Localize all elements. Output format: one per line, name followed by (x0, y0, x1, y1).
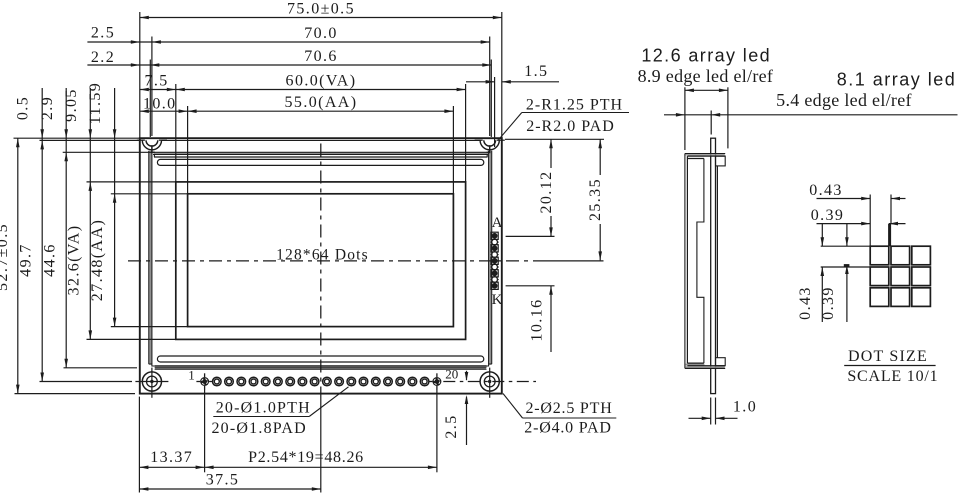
svg-text:2.2: 2.2 (91, 49, 115, 66)
side view PCB (1.0 thick) (711, 138, 716, 393)
svg-text:27.48(AA): 27.48(AA) (89, 219, 106, 301)
dimension 0.43 horizontal (817, 198, 871, 200)
VA window rectangle 60.0 x 32.6 (176, 182, 466, 340)
extension line AA top to left (111, 193, 188, 195)
extension line bezel top left (40, 139, 141, 141)
svg-text:A: A (492, 215, 503, 231)
horizontal centerline (dash-dot) (128, 260, 536, 262)
extension line right hole center above (489, 37, 491, 137)
side view bottom shelf (685, 364, 704, 366)
svg-text:0.43: 0.43 (797, 286, 814, 320)
top-left mounting notch 2-R1.25/R2.0 (142, 140, 161, 150)
svg-text:1.0: 1.0 (733, 399, 757, 416)
pins 2-19 pads (213, 377, 222, 386)
extension line bezel right above (490, 60, 492, 138)
svg-text:2.9: 2.9 (39, 96, 56, 120)
svg-text:2-Ø4.0 PAD: 2-Ø4.0 PAD (524, 420, 611, 437)
AA window rectangle 55.0 x 27.48 (188, 194, 454, 327)
svg-text:20.12: 20.12 (538, 171, 555, 214)
side view bezel top lip (685, 154, 724, 155)
side view tab column line (716, 166, 718, 358)
svg-text:32.6(VA): 32.6(VA) (66, 225, 83, 296)
extension line left hole center above (151, 37, 153, 137)
extension line VA bottom to left (87, 338, 176, 340)
dimension 13.37 and P2.54*19=48.26 (139, 466, 437, 468)
svg-text:11.59: 11.59 (87, 82, 104, 124)
dimension 75.0+-0.5 (140, 17, 502, 19)
svg-text:2-R1.25 PTH: 2-R1.25 PTH (526, 97, 623, 114)
svg-text:60.0(VA): 60.0(VA) (286, 73, 357, 90)
svg-text:13.37: 13.37 (150, 449, 193, 466)
dot width thick reference (888, 224, 891, 247)
dimension 0.39 horizontal (817, 223, 871, 225)
extension line pin1 below (204, 390, 206, 473)
extension line module right above (501, 12, 503, 138)
svg-text:2.5: 2.5 (443, 414, 460, 438)
svg-text:DOT SIZE: DOT SIZE (848, 348, 928, 365)
side view bezel top tab (716, 156, 726, 166)
extension line backlight pad K right (506, 285, 555, 287)
svg-text:10.16: 10.16 (529, 299, 546, 342)
extension line pin row left (40, 381, 133, 383)
extension line AA bottom to left (111, 326, 188, 328)
svg-text:0.43: 0.43 (809, 182, 843, 199)
dot pitch extension lines top (869, 195, 871, 247)
svg-text:44.6: 44.6 (42, 243, 59, 277)
extension line heat-seal 1.5 ref (494, 77, 496, 147)
dimension 10.16 (550, 286, 552, 352)
svg-text:2-Ø2.5 PTH: 2-Ø2.5 PTH (525, 400, 612, 417)
pin 20 pad (filled) (432, 377, 441, 386)
bottom elastomer slot (rounded) (157, 356, 483, 362)
top-right mounting notch 2-R1.25/R2.0 (480, 140, 499, 150)
svg-text:49.7: 49.7 (18, 243, 35, 277)
dimension 55.0(AA) (140, 110, 454, 112)
svg-text:1: 1 (188, 367, 195, 382)
bezel top inner shelf line (154, 156, 488, 158)
extension line backlight pad A right (506, 235, 555, 237)
svg-text:128*64 Dots: 128*64 Dots (276, 246, 369, 263)
extension line VA top to left (87, 181, 176, 183)
dimension 70.0 hole spacing (87, 41, 489, 43)
extension line lip top left (63, 151, 154, 153)
svg-text:0.39: 0.39 (811, 207, 845, 224)
side view bezel bottom tab (716, 358, 726, 366)
dimension 0.39 vertical (846, 224, 848, 246)
backlight pads column A-K (491, 232, 498, 239)
svg-text:20: 20 (445, 367, 458, 382)
side view top shelf (687, 158, 704, 160)
dot matrix 3x3 cells (870, 246, 889, 265)
extension line AA right above (452, 106, 454, 194)
extension line module left above (139, 12, 141, 138)
pin row centerline left hole crosshair (135, 381, 168, 383)
pin 1 pad (filled) (200, 377, 209, 386)
dimension 9.05 / 32.6(VA) line (89, 88, 91, 339)
svg-text:5.4 edge led el/ref: 5.4 edge led el/ref (776, 90, 912, 110)
dimension 11.59 / 27.48(AA) line (114, 88, 116, 327)
extension line bezel left above (149, 60, 151, 138)
dimension 70.6 bezel width (87, 64, 491, 66)
top elastomer slot (rounded) (157, 159, 483, 165)
dimension 0.5 / 49.7 line (41, 88, 43, 382)
extension line AA left above (187, 106, 189, 194)
extension line module left below (138, 397, 140, 493)
svg-text:75.0±0.5: 75.0±0.5 (287, 1, 355, 18)
svg-text:55.0(AA): 55.0(AA) (285, 94, 358, 111)
side view glass/backlight profile (697, 159, 704, 364)
bezel bottom lip band (44.6 ref) (155, 368, 486, 369)
svg-text:8.1 array led: 8.1 array led (837, 70, 957, 90)
svg-text:0.39: 0.39 (820, 286, 837, 320)
bezel top edge line (161, 139, 480, 141)
dimension 1.0 PCB thickness (710, 398, 712, 425)
svg-text:7.5: 7.5 (144, 73, 168, 90)
dimension 60.0(VA) (140, 89, 466, 91)
dimension 0.43 vertical (821, 224, 823, 246)
bezel left edge band (152, 152, 155, 157)
svg-text:0.5: 0.5 (15, 96, 32, 120)
svg-text:12.6 array led: 12.6 array led (641, 46, 771, 66)
svg-text:9.05: 9.05 (63, 88, 80, 122)
dimension 52.7+-0.5 module height (17, 138, 19, 393)
svg-text:52.7±0.5: 52.7±0.5 (0, 223, 11, 291)
extension line pin20 below (436, 390, 438, 473)
extension line VA left above (175, 84, 177, 182)
svg-text:70.0: 70.0 (304, 25, 338, 42)
dimension 12.6/8.9 thickness (684, 87, 686, 150)
svg-text:10.0: 10.0 (143, 96, 177, 113)
dimension 2.9 / 44.6 line (65, 88, 67, 368)
extension line module top right (505, 138, 604, 140)
svg-text:20-Ø1.8PAD: 20-Ø1.8PAD (211, 420, 306, 437)
bezel top lip band (2.9 ref) (154, 153, 488, 154)
dot height thick reference (844, 264, 850, 267)
svg-text:8.9 edge led el/ref: 8.9 edge led el/ref (638, 66, 774, 86)
extension line module bottom left (15, 393, 136, 395)
bottom-left mounting hole 2-D2.5/4.0 (142, 372, 161, 391)
vertical centerline (dash-dot) (320, 144, 322, 394)
svg-text:P2.54*19=48.26: P2.54*19=48.26 (248, 449, 364, 466)
bezel bottom inner shelf line (155, 365, 487, 367)
svg-text:K: K (492, 292, 503, 308)
pin row centerline right (dash-dot) (443, 381, 536, 383)
svg-text:70.6: 70.6 (304, 48, 338, 65)
svg-text:2-R2.0 PAD: 2-R2.0 PAD (526, 118, 615, 135)
svg-text:37.5: 37.5 (206, 472, 240, 489)
side view bezel front face (684, 154, 686, 369)
dimension 37.5 (139, 488, 320, 490)
extension line VA right above (465, 84, 467, 182)
svg-text:SCALE 10/1: SCALE 10/1 (847, 368, 938, 385)
svg-text:2.5: 2.5 (91, 25, 115, 42)
dimension 2.5 pin row to bottom edge (466, 371, 468, 380)
extension line module top left (14, 137, 140, 139)
dimension 5.4/8.1 front to PCB (664, 114, 958, 116)
dimension 20.12 (550, 139, 552, 168)
extension line bezel bottom left (64, 367, 138, 369)
svg-text:25.35: 25.35 (587, 178, 604, 221)
bezel right edge band (487, 152, 490, 157)
svg-text:20-Ø1.0PTH: 20-Ø1.0PTH (216, 400, 311, 417)
LCD module PCB outline (75.0 x 52.7) (140, 138, 502, 393)
bottom-right mounting hole 2-D2.5/4.0 (480, 372, 499, 391)
dimension 25.35 (599, 139, 601, 175)
dimension 1.5 heat-seal to edge (466, 81, 495, 83)
dot pitch extension lines left (821, 245, 871, 247)
side view bezel bottom lip (685, 366, 724, 368)
svg-text:1.5: 1.5 (524, 63, 548, 80)
